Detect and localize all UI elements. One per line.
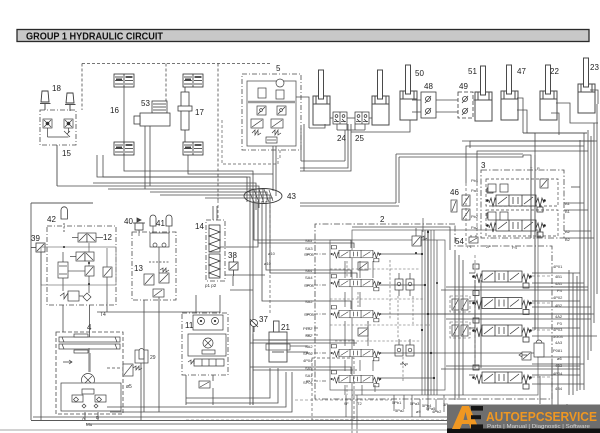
check valve 25 <box>355 112 369 124</box>
svg-text:PL02: PL02 <box>303 326 313 331</box>
svg-text:5: 5 <box>276 64 281 73</box>
svg-text:SA2: SA2 <box>305 299 313 304</box>
center bypass bus <box>422 218 437 395</box>
bucket cylinder 22 <box>540 65 557 120</box>
anti-drift valve block <box>358 262 368 336</box>
wires 24/25 <box>296 97 372 161</box>
svg-text:18: 18 <box>52 84 61 93</box>
svg-text:9F: 9F <box>344 401 349 406</box>
svg-text:P4: P4 <box>512 245 518 250</box>
svg-text:43: 43 <box>287 192 296 201</box>
A1 B1 A2 B2 port labels <box>565 201 571 242</box>
svg-text:SA2: SA2 <box>305 344 313 349</box>
valve 38 <box>229 258 238 276</box>
wires 41 to 13 <box>139 226 169 236</box>
spool row 4P04 <box>472 365 532 389</box>
supply riser P <box>531 155 535 330</box>
breather pair 41 <box>150 215 172 226</box>
svg-text:P4: P4 <box>557 288 563 293</box>
pilot check pair b <box>395 339 414 366</box>
swivel joint 43 (ellipse) <box>244 189 282 204</box>
svg-text:4B1: 4B1 <box>555 274 563 279</box>
svg-text:S84: S84 <box>305 268 313 273</box>
dashed return line bottom <box>186 419 540 421</box>
svg-text:4P04: 4P04 <box>303 358 313 363</box>
shuttle 54 <box>469 235 478 243</box>
svg-text:13: 13 <box>134 264 143 273</box>
breather 42 <box>61 207 67 233</box>
valve o5 right of pump <box>123 364 142 376</box>
pilot filter unit 13 <box>132 232 176 300</box>
right rows feed verticals <box>455 250 481 400</box>
wire 14 to right <box>220 203 265 286</box>
dashed drain bottom <box>295 399 392 401</box>
svg-text:ø10: ø10 <box>268 251 276 256</box>
check valve 24 <box>333 112 347 124</box>
svg-text:Pa1: Pa1 <box>471 188 479 193</box>
svg-text:SA3: SA3 <box>305 246 313 251</box>
pilot caps 3 <box>488 184 508 220</box>
row output wires <box>377 254 591 378</box>
svg-text:Pa2: Pa2 <box>471 225 479 230</box>
pilot check pair a <box>395 273 414 296</box>
spool row 3-2 <box>486 213 546 237</box>
accumulator 14 <box>206 220 225 281</box>
svg-text:AUTOEPCSERVICE: AUTOEPCSERVICE <box>486 409 597 424</box>
left port labels of 2 <box>303 238 315 385</box>
svg-text:49: 49 <box>459 82 468 91</box>
bundle after swivel <box>250 202 259 405</box>
svg-text:5G03: 5G03 <box>553 334 564 339</box>
svg-text:29: 29 <box>150 355 156 361</box>
svg-text:23: 23 <box>590 63 599 72</box>
right port labels of 2 <box>553 264 564 391</box>
wire from 15 down <box>56 145 58 186</box>
pilot supply line to 54 <box>352 227 450 250</box>
valve 2 bottom drop lines <box>346 395 444 433</box>
bottom wires left <box>33 368 540 424</box>
pedal 18 right <box>65 93 76 111</box>
svg-text:SP04: SP04 <box>304 283 315 288</box>
svg-text:5Pa3: 5Pa3 <box>410 401 420 406</box>
svg-text:A1: A1 <box>565 201 571 206</box>
pilot double wires (from pedals/joysticks to control valves) <box>300 124 523 206</box>
valve 3 internals <box>486 179 558 236</box>
svg-text:39: 39 <box>31 234 40 243</box>
svg-text:3: 3 <box>481 161 486 170</box>
svg-text:38: 38 <box>228 251 237 260</box>
check valve block 49 <box>458 92 473 118</box>
svg-text:S85: S85 <box>305 238 313 243</box>
enclosure box (upperstructure boundary) <box>31 203 567 421</box>
spool row SP02 (dozer) <box>331 345 382 361</box>
svg-text:51: 51 <box>468 67 477 76</box>
swing cylinder 51 <box>475 66 492 121</box>
svg-text:Pb2: Pb2 <box>471 214 479 219</box>
svg-text:11: 11 <box>185 321 194 330</box>
svg-text:4A1: 4A1 <box>555 281 563 286</box>
spool row 4P02 <box>472 291 532 315</box>
dozer cylinder 50 <box>400 65 417 120</box>
svg-text:37: 37 <box>259 315 268 324</box>
center joint 17 <box>178 74 192 142</box>
svg-text:46: 46 <box>450 188 459 197</box>
filter unit 29 <box>135 349 148 363</box>
spool chain links <box>345 261 375 395</box>
pedal 18 left <box>40 91 51 110</box>
title bar GROUP 1 HYDRAULIC CIRCUIT <box>17 30 589 43</box>
oil cooler unit 11 <box>182 313 228 388</box>
wires pump region <box>85 312 220 420</box>
svg-text:P081: P081 <box>553 348 563 353</box>
spool row 3-1 <box>486 188 546 212</box>
travel motor 17 top <box>183 74 203 87</box>
svg-text:SP02: SP02 <box>303 351 314 356</box>
right vertical wire bundle <box>580 104 597 390</box>
pilot solenoid pairs right rows <box>452 299 468 336</box>
valve 2 inner housing <box>330 230 538 395</box>
svg-text:4P01: 4P01 <box>553 264 563 269</box>
svg-text:5Pb1: 5Pb1 <box>392 400 402 405</box>
svg-text:4A2: 4A2 <box>555 314 563 319</box>
svg-text:P1: P1 <box>467 244 473 249</box>
svg-text:p1 p2: p1 p2 <box>205 283 217 288</box>
svg-text:54: 54 <box>455 237 464 246</box>
svg-text:ø10: ø10 <box>264 261 272 266</box>
svg-text:B: B <box>96 415 99 420</box>
svg-text:S82: S82 <box>305 333 313 338</box>
wires 11 <box>186 295 220 405</box>
dashed pilot lines along bundle <box>218 200 270 315</box>
dashed pilot box bottom left of 2 <box>312 358 354 420</box>
relief in 3 <box>540 179 548 188</box>
bundle branches to valve 2 ports <box>230 201 357 374</box>
dashed enclosure (travel pilot group) <box>82 64 272 201</box>
spool row 4P03 <box>472 318 532 342</box>
boom cylinder (left of 24) <box>313 70 330 125</box>
wires 48-49 <box>412 100 480 112</box>
dashed row-end runs <box>450 255 552 377</box>
spool row SP03 (swing) <box>331 306 382 322</box>
pilot port labels 3 <box>471 166 540 230</box>
wires right rows to bundle <box>469 273 597 384</box>
svg-text:Mu: Mu <box>86 422 93 427</box>
svg-text:ø9: ø9 <box>416 409 421 414</box>
svg-text:21: 21 <box>281 323 290 332</box>
wire motor16 link <box>123 87 125 142</box>
logo AUTOEPCSERVICE <box>447 405 600 433</box>
valve block 5 <box>222 74 301 196</box>
port 39 <box>31 243 45 252</box>
swing cylinder 21 <box>266 321 290 362</box>
boom cylinder (right of 25) <box>372 70 389 125</box>
svg-text:Pb1: Pb1 <box>471 178 479 183</box>
svg-text:SP03: SP03 <box>304 312 315 317</box>
gearbox 53 <box>134 101 170 126</box>
svg-text:T2: T2 <box>357 401 362 406</box>
inner verticals right <box>569 270 577 395</box>
port stubs into valve 2 <box>306 254 326 381</box>
svg-text:A2: A2 <box>565 229 571 234</box>
bottom page rule <box>0 429 600 431</box>
svg-text:Parts | Manual | Diagnostic |: Parts | Manual | Diagnostic | Software <box>487 424 590 430</box>
svg-text:4B4: 4B4 <box>555 386 563 391</box>
mid horizontal crossings <box>437 287 594 412</box>
dozer valve 3 boundary <box>481 170 564 238</box>
arm cylinder 47 <box>501 65 518 120</box>
travel motor 17 bottom <box>183 142 203 155</box>
pressure sensor 37 <box>250 319 258 332</box>
dashed pilot risers 3 <box>466 183 477 245</box>
svg-text:P3: P3 <box>557 321 563 326</box>
offset cylinder 23 <box>578 58 595 113</box>
hydraulic tank unit 12 <box>47 226 116 305</box>
accumulator block right <box>519 340 544 360</box>
svg-text:48: 48 <box>424 82 433 91</box>
svg-text:2P: 2P <box>486 244 491 249</box>
pilot valve block 46 <box>451 195 470 220</box>
wires 21 <box>250 310 308 405</box>
pilot riser wires to 3 <box>462 141 597 183</box>
svg-text:47: 47 <box>517 67 526 76</box>
svg-text:ø5: ø5 <box>126 384 132 390</box>
wires cylinders to right bundle <box>351 90 598 135</box>
spool row 4P01 <box>472 264 532 288</box>
svg-text:4A3: 4A3 <box>555 340 563 345</box>
svg-text:5Pa2: 5Pa2 <box>395 408 405 413</box>
svg-text:4P02: 4P02 <box>553 295 563 300</box>
svg-text:16: 16 <box>110 106 119 115</box>
pilot web dashed <box>330 260 430 395</box>
svg-text:53: 53 <box>141 99 150 108</box>
spool row SP05 (boom) <box>331 246 382 262</box>
bottom port labels of 2 <box>344 400 448 414</box>
svg-text:2: 2 <box>380 215 385 224</box>
check valve block 48 <box>421 92 436 118</box>
svg-text:17: 17 <box>195 108 204 117</box>
spool row SP04 (arm) <box>331 275 382 291</box>
main relief valve in 2 <box>412 228 427 246</box>
main control valve 2 boundary <box>315 224 552 399</box>
svg-text:41: 41 <box>156 219 165 228</box>
wires top of 3 <box>348 124 535 160</box>
svg-text:12: 12 <box>103 233 112 242</box>
svg-text:T4: T4 <box>100 312 106 318</box>
svg-text:22: 22 <box>550 67 559 76</box>
svg-text:14: 14 <box>195 222 204 231</box>
svg-text:50: 50 <box>415 69 424 78</box>
svg-text:4Pb2: 4Pb2 <box>432 409 442 414</box>
main pump 4 <box>56 332 123 414</box>
svg-text:GROUP 1 HYDRAULIC CIRCUIT: GROUP 1 HYDRAULIC CIRCUIT <box>26 32 163 43</box>
svg-text:25: 25 <box>355 134 364 143</box>
svg-text:40: 40 <box>124 217 133 226</box>
extra feed wires left <box>41 124 345 420</box>
svg-text:SP05: SP05 <box>304 252 315 257</box>
svg-text:SA4: SA4 <box>305 275 313 280</box>
valve 15 (remote control pedal valve) <box>40 110 76 145</box>
travel motor 16 top <box>114 74 134 87</box>
travel motor 16 bottom <box>114 142 134 155</box>
air filter 40 <box>133 218 145 230</box>
spool row SP01 (travel) <box>331 371 382 387</box>
wires 3 to bundle <box>564 187 594 238</box>
junction dots bus <box>415 231 438 379</box>
svg-text:42: 42 <box>47 215 56 224</box>
wire bundle to swivel joint <box>57 155 273 202</box>
housing rect 12 <box>41 247 116 285</box>
svg-text:15: 15 <box>62 149 71 158</box>
